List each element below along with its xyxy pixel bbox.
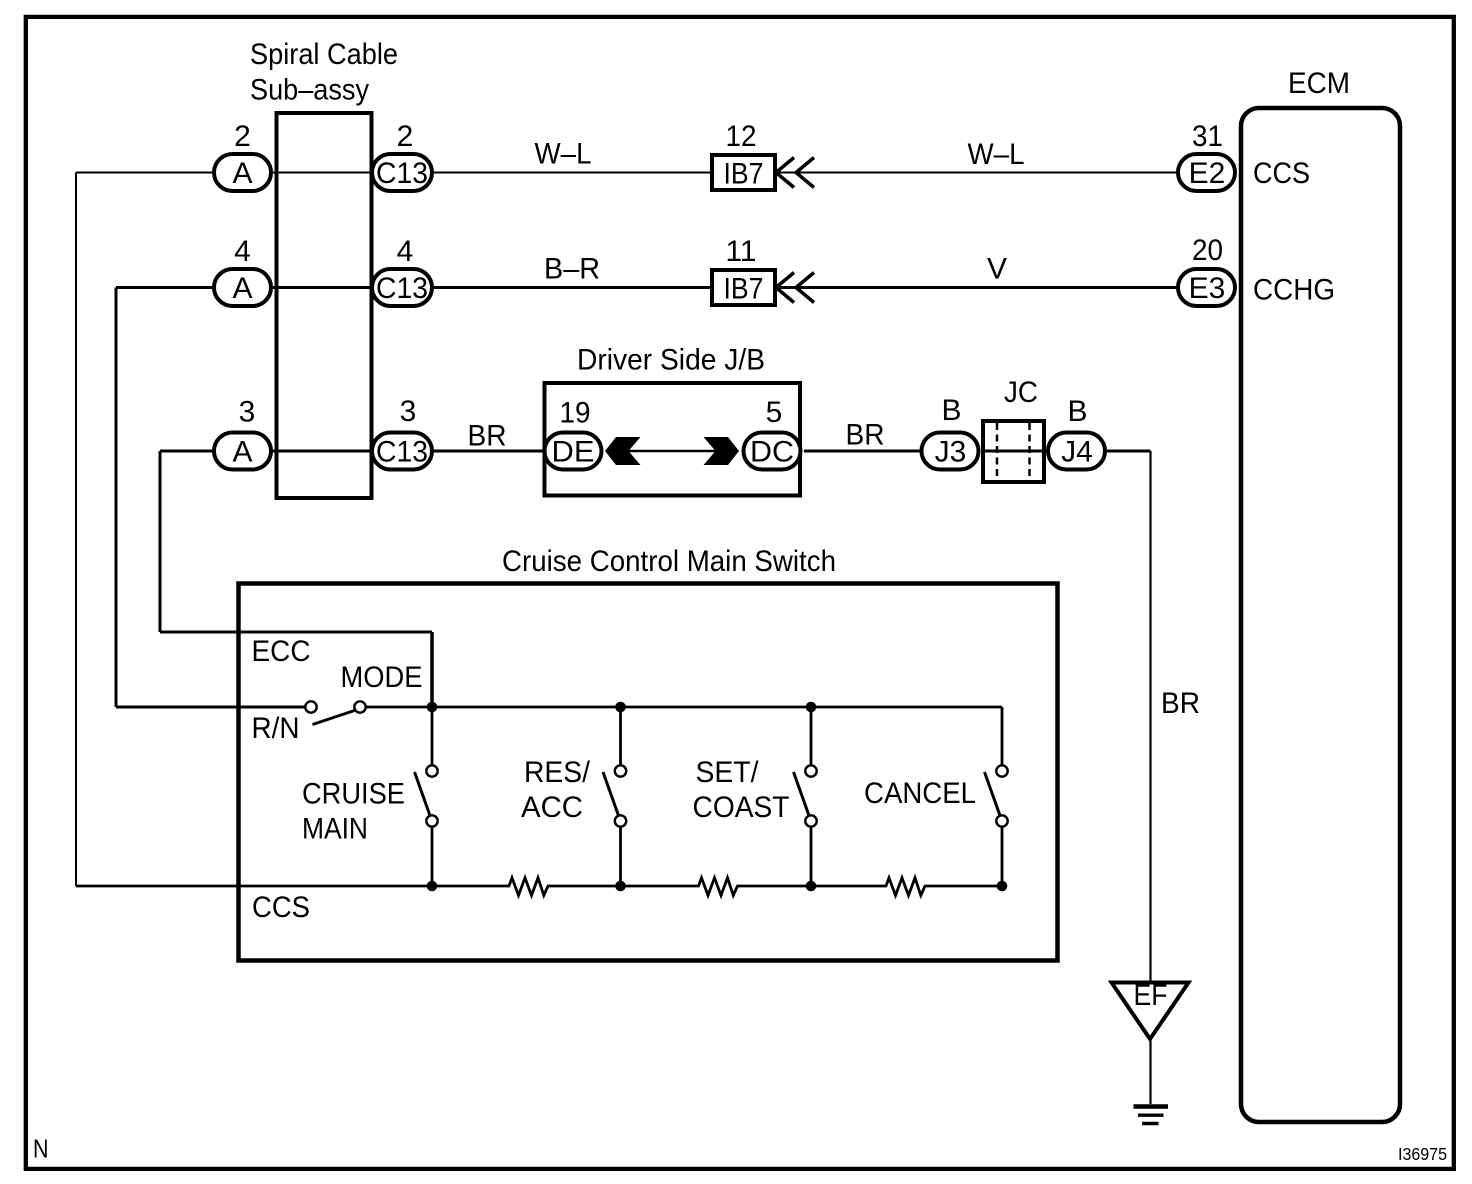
switch CANCEL blade [985,772,1001,817]
svg-text:I36975: I36975 [1398,1144,1447,1164]
wire ECC drop to bus [430,632,434,707]
svg-text:2: 2 [397,120,414,153]
bottom CCS bus with resistors [76,878,1002,896]
junction dot ECC/bus [427,702,438,713]
wire W-L: connector A2 to left vertical [76,172,212,174]
wire B-R through spiral box [272,286,372,289]
svg-text:BR: BR [468,420,507,453]
svg-text:A: A [232,272,252,305]
junction dot set/coast bus [806,702,817,713]
connector J3 [922,433,979,470]
switch MODE contact right [354,701,365,712]
switch CANCEL contacts [996,765,1007,776]
wire V: IB7 to E3 [777,286,1178,289]
svg-text:ECC: ECC [252,635,311,668]
svg-text:A: A [232,157,252,190]
wire W-L: C13-2 to IB7 [434,172,712,174]
svg-text:11: 11 [726,235,757,268]
IB7 connector box pin 12 [712,155,775,190]
svg-text:C13: C13 [376,436,428,469]
arrow chevrons row 2 [776,273,794,303]
wire cruise main lower [431,827,434,886]
junction dot cruise main bottom [427,881,438,892]
svg-text:BR: BR [846,419,885,452]
connector C13 pin 2 [372,154,432,191]
svg-text:5: 5 [766,396,783,429]
wire R/N horizontal [116,706,306,709]
svg-text:20: 20 [1192,234,1223,267]
svg-text:2: 2 [234,120,251,153]
wire B-R: connector A4 to left vertical [116,286,212,289]
svg-text:B–R: B–R [544,253,600,286]
svg-text:C13: C13 [376,272,428,305]
switch SET/COAST contacts [805,765,816,776]
spiral cable sub-assy box [277,113,372,498]
svg-text:MODE: MODE [341,661,423,694]
wire cruise main branch [431,707,434,765]
switch CRUISE MAIN blade [415,772,431,817]
arrow chevrons row 1 [776,158,794,188]
svg-text:ACC: ACC [521,791,583,824]
svg-text:W–L: W–L [968,138,1025,171]
connector DE pin 19 [545,433,602,470]
IB7 connector box pin 11 [712,270,775,305]
wire res/acc branch [619,707,622,765]
svg-text:CCHG: CCHG [1253,274,1335,307]
junction dot res/acc bus [615,702,626,713]
connector A pin 3 [214,433,271,470]
connector E2 pin 31 [1178,154,1235,191]
svg-text:BR: BR [1161,687,1200,720]
svg-text:EF: EF [1134,979,1168,1012]
wire cancel lower [1001,827,1004,886]
connector J4 [1048,433,1105,470]
connector C13 pin 3 [372,433,432,470]
Cruise Control Main Switch box [239,584,1058,961]
connector C13 pin 4 [372,269,432,306]
svg-text:Spiral Cable: Spiral Cable [250,38,398,71]
svg-text:12: 12 [726,120,757,153]
junction dot res/acc bottom [615,881,626,892]
wire set/coast lower [810,827,813,886]
svg-text:W–L: W–L [535,138,592,171]
svg-text:N: N [33,1134,49,1164]
svg-text:CCS: CCS [252,891,310,924]
wire W-L through spiral box [272,172,372,174]
wire BR: DC to J3 [804,450,921,453]
svg-text:Cruise Control Main Switch: Cruise Control Main Switch [502,545,836,578]
svg-text:B: B [1067,395,1087,428]
wire BR through spiral box [272,450,372,453]
svg-text:3: 3 [400,395,417,428]
svg-text:Sub–assy: Sub–assy [250,74,369,107]
junction dot cancel bottom [997,881,1008,892]
switch MODE blade [313,711,355,725]
svg-text:19: 19 [560,397,591,430]
wire BR vertical to ground [1149,451,1151,982]
JC dashed pin line left [996,423,999,480]
connector A pin 4 [214,269,271,306]
switch SET/COAST blade [794,772,810,817]
svg-text:4: 4 [234,235,251,268]
svg-text:Driver Side J/B: Driver Side J/B [577,344,765,377]
svg-text:R/N: R/N [252,712,300,745]
svg-text:DE: DE [552,436,595,469]
junction dot set/coast bottom [806,881,817,892]
connector E3 pin 20 [1178,269,1235,306]
svg-text:CANCEL: CANCEL [864,777,976,810]
junction connector JC box [983,421,1044,482]
JC wire through [983,450,1044,453]
connector DC pin 5 [744,433,801,470]
wire ECC vertical [159,451,162,632]
wire BR: A3 to left [160,450,212,453]
svg-text:CCS: CCS [1253,157,1310,190]
svg-text:3: 3 [239,396,256,429]
switch RES/ACC contacts [615,765,626,776]
wire B-R vertical to R/N [115,288,118,708]
wire W-L: IB7 to E2 [777,172,1178,174]
ground symbol [1134,1104,1169,1109]
svg-text:E3: E3 [1189,272,1226,305]
svg-text:JC: JC [1004,376,1038,409]
wire ECC horizontal [160,631,432,634]
svg-text:ECM: ECM [1288,67,1350,100]
svg-text:RES/: RES/ [524,756,591,789]
JC dashed pin line right [1028,423,1031,480]
wire CCS left vertical [75,173,77,887]
svg-text:A: A [232,436,252,469]
svg-text:4: 4 [397,235,414,268]
wire cancel corner drop [1001,707,1004,765]
switch RES/ACC blade [603,772,619,817]
arrow left DE [605,437,641,465]
svg-text:J3: J3 [935,436,967,469]
wire B-R: C13-4 to IB7 [434,286,712,289]
svg-text:DC: DC [750,436,794,469]
wire BR: J4 to corner [1107,450,1151,453]
ground EF triangle [1112,983,1189,1040]
connector A pin 2 [214,154,271,191]
svg-text:J4: J4 [1061,436,1093,469]
svg-text:COAST: COAST [693,791,790,824]
ECM box [1241,108,1400,1122]
switch CRUISE MAIN contacts [426,765,437,776]
wire set/coast branch [810,707,813,765]
svg-text:CRUISE: CRUISE [302,778,405,811]
switch bus wire [366,706,1002,709]
Driver Side J/B box [545,383,801,496]
wire EF to ground [1149,1039,1151,1104]
switch MODE contact left [305,701,316,712]
wire DE-DC shaft [620,450,725,453]
wire res/acc lower [619,827,622,886]
svg-text:E2: E2 [1189,157,1226,190]
svg-text:C13: C13 [376,157,428,190]
arrow right DC [704,437,740,465]
svg-text:IB7: IB7 [724,158,764,191]
wire BR: C13-3 to DE [434,450,543,453]
svg-text:IB7: IB7 [724,273,764,306]
svg-text:SET/: SET/ [696,756,760,789]
svg-text:B: B [941,394,961,427]
svg-text:31: 31 [1192,120,1223,153]
svg-text:V: V [987,253,1007,286]
svg-text:MAIN: MAIN [302,813,368,846]
